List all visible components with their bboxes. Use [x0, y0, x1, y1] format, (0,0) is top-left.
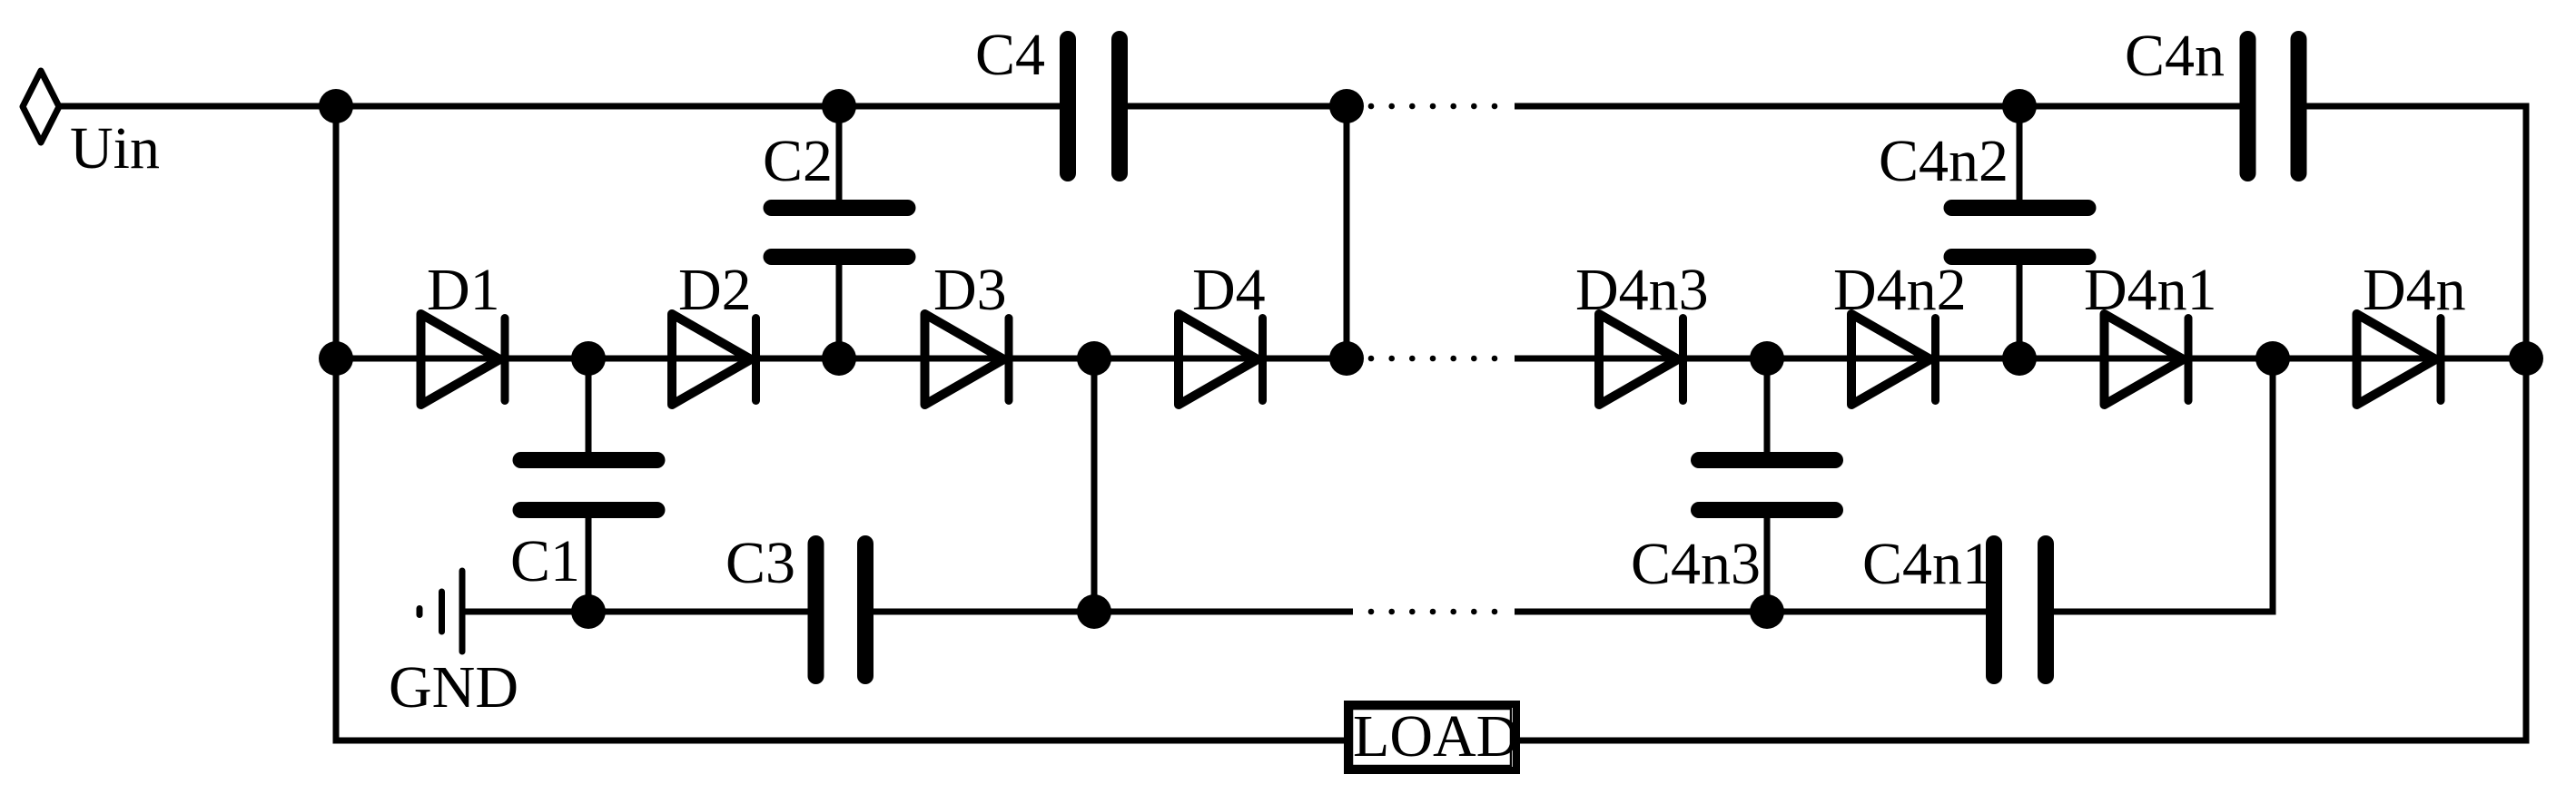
wire top rail segment A (Uin to C4 left plate) — [59, 103, 1068, 110]
wire diode rail right segment — [1515, 356, 2526, 362]
capacitor C1 — [521, 358, 657, 612]
junction top rail at C4n2 — [2002, 89, 2037, 123]
diode D4n1 — [2105, 314, 2189, 405]
capacitor C4n1 — [1994, 544, 2046, 676]
input terminal Uin (diamond) — [23, 71, 59, 142]
diode D4n — [2357, 314, 2442, 405]
wire cap rail segment C (to C4n1 left plate) — [1515, 609, 1994, 615]
junction cap rail at riser — [1077, 594, 1111, 629]
wire cap rail segment B (C3 right plate rightwards) — [865, 609, 1353, 615]
wire cap rail dotted continuation — [1368, 609, 1498, 615]
svg-text:D4n3: D4n3 — [1575, 257, 1709, 323]
wire diode rail dotted continuation — [1368, 356, 1498, 362]
svg-text:C4n2: C4n2 — [1879, 128, 2008, 194]
junction diode rail node B — [1329, 341, 1364, 376]
wire cap rail segment A (GND to C3 left plate) — [462, 609, 815, 615]
svg-text:D4n: D4n — [2363, 257, 2466, 323]
capacitor C3 — [816, 544, 866, 676]
svg-text:C4: C4 — [975, 22, 1045, 88]
diode D4 — [1179, 314, 1263, 405]
svg-text:LOAD: LOAD — [1353, 703, 1519, 770]
junction cap rail at C1 — [571, 594, 606, 629]
svg-text:D2: D2 — [678, 257, 752, 323]
diode D2 — [672, 314, 756, 405]
wire top rail segment B (C4 right plate to node) — [1120, 103, 1353, 110]
ground symbol GND — [419, 571, 462, 652]
wire top rail dotted continuation — [1368, 103, 1498, 110]
wire left vertical and bottom rail left segment (to LOAD) — [336, 106, 1344, 740]
junction diode rail output node — [2509, 341, 2543, 376]
junction top rail at C2 — [822, 89, 856, 123]
svg-text:C4n: C4n — [2125, 23, 2225, 89]
junction diode rail D4n1-D4n — [2255, 341, 2290, 376]
junction diode rail at C4n3 — [1750, 341, 1784, 376]
svg-text:C2: C2 — [763, 128, 833, 194]
svg-text:Uin: Uin — [70, 115, 160, 181]
junction diode rail D3-D4 — [1077, 341, 1111, 376]
wire riser between D3 and D4 down to cap rail — [1091, 358, 1098, 612]
wire cap rail segment D and riser up between D4n1 and D4n — [2046, 358, 2273, 612]
load box LOAD — [1347, 704, 1516, 770]
wire top rail segment D and right-side drop to bottom rail — [1520, 106, 2526, 740]
wire top rail segment C (to C4n left plate) — [1515, 103, 2247, 110]
junction diode rail at C4n2 — [2002, 341, 2037, 376]
svg-text:C3: C3 — [725, 530, 795, 596]
capacitor C4n3 — [1699, 358, 1835, 612]
diode D1 — [421, 314, 506, 405]
junction diode rail D2-D3 at C2 — [822, 341, 856, 376]
diode D4n3 — [1599, 314, 1683, 405]
svg-text:C4n1: C4n1 — [1862, 531, 1992, 597]
svg-text:D1: D1 — [427, 257, 500, 323]
junction cap rail at C4n3 — [1750, 594, 1784, 629]
svg-text:C1: C1 — [510, 528, 580, 594]
svg-text:C4n3: C4n3 — [1631, 531, 1761, 597]
svg-text:D4n2: D4n2 — [1833, 257, 1967, 323]
diode D4n2 — [1851, 314, 1936, 405]
svg-text:D4n1: D4n1 — [2084, 257, 2217, 323]
diode D3 — [925, 314, 1010, 405]
wire diode rail left segment — [336, 356, 1353, 362]
junction diode rail D1-D2 at C1 — [571, 341, 606, 376]
svg-text:D3: D3 — [933, 257, 1007, 323]
junction top rail at input column — [319, 89, 353, 123]
svg-text:GND: GND — [389, 654, 518, 721]
capacitor C4 — [1068, 39, 1120, 173]
junction diode rail at input column — [319, 341, 353, 376]
junction top rail node B — [1329, 89, 1364, 123]
capacitor C2 — [772, 106, 908, 358]
capacitor C4n2 — [1952, 106, 2088, 358]
capacitor C4n — [2248, 39, 2299, 173]
svg-text:D4: D4 — [1192, 257, 1266, 323]
wire riser node B (top rail to diode rail) — [1344, 106, 1350, 358]
